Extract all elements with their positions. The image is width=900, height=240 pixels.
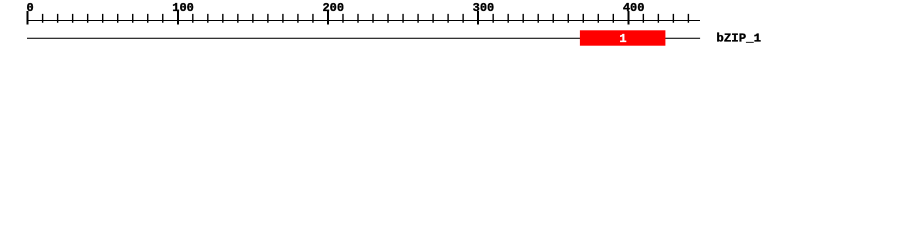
svg-text:bZIP_1: bZIP_1 (716, 32, 761, 46)
ruler major tick 300 (477, 11, 479, 25)
ruler major tick 200 (327, 11, 329, 25)
svg-text:1: 1 (619, 32, 626, 46)
svg-text:300: 300 (473, 1, 495, 15)
ruler major tick 100 (177, 11, 179, 25)
domain box bZIP_1 (match 1) (580, 30, 666, 45)
svg-text:400: 400 (623, 1, 645, 15)
sequence backbone line (27, 38, 700, 39)
ruler line (27, 20, 700, 22)
ruler major tick 0 (27, 11, 29, 25)
svg-text:200: 200 (322, 1, 344, 15)
ruler major tick 400 (627, 11, 629, 25)
svg-text:100: 100 (172, 1, 194, 15)
ruler minor ticks (every 10 aa) (43, 14, 689, 23)
svg-text:0: 0 (27, 1, 34, 15)
